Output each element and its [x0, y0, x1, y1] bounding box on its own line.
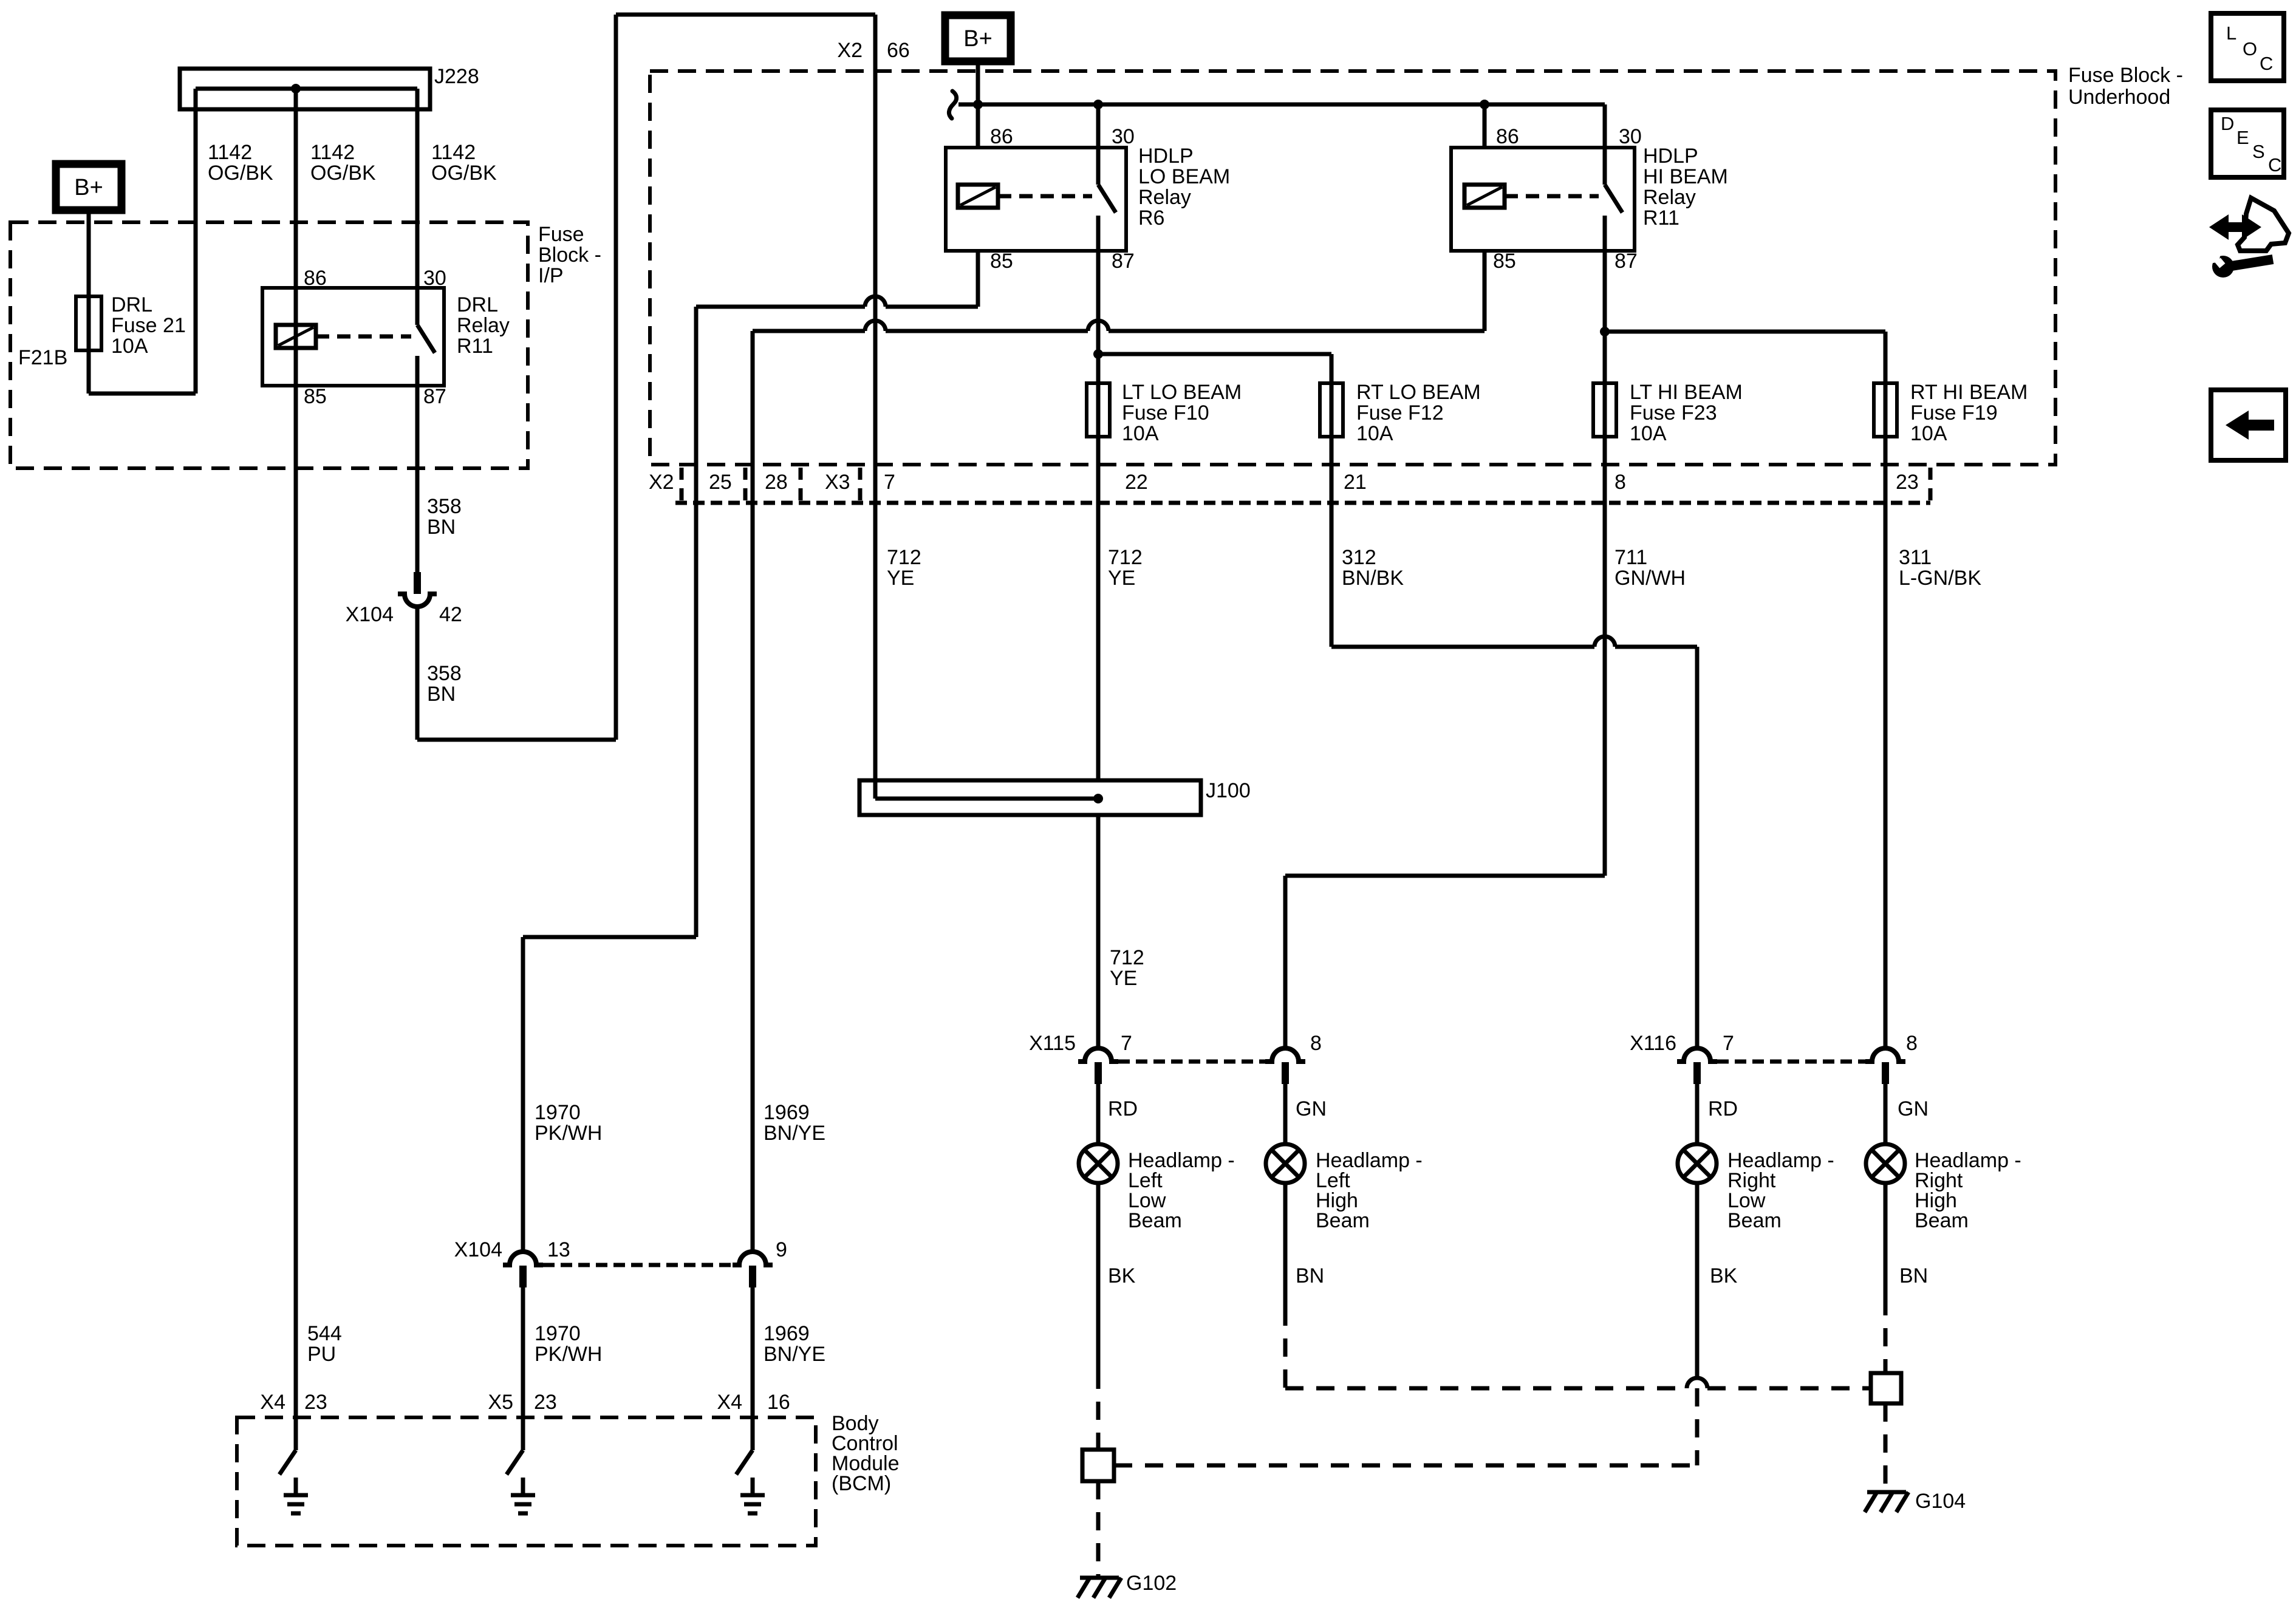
svg-text:1969: 1969 — [764, 1101, 810, 1124]
svg-text:22: 22 — [1125, 471, 1148, 494]
svg-text:544: 544 — [307, 1322, 342, 1345]
svg-text:30: 30 — [1112, 125, 1135, 148]
svg-text:YE: YE — [887, 567, 914, 590]
svg-text:1970: 1970 — [535, 1101, 581, 1124]
svg-text:86: 86 — [1496, 125, 1519, 148]
svg-text:G102: G102 — [1126, 1572, 1177, 1595]
svg-text:I/P: I/P — [538, 264, 564, 287]
svg-text:10A: 10A — [1630, 422, 1667, 445]
svg-text:1142: 1142 — [208, 141, 252, 164]
svg-text:Fuse F19: Fuse F19 — [1910, 401, 1998, 424]
svg-text:712: 712 — [1110, 946, 1144, 969]
svg-text:Beam: Beam — [1128, 1209, 1182, 1232]
svg-text:B+: B+ — [963, 26, 993, 52]
svg-text:OG/BK: OG/BK — [431, 162, 497, 185]
svg-text:R11: R11 — [1643, 206, 1679, 230]
svg-text:10A: 10A — [1122, 422, 1159, 445]
svg-text:L: L — [2226, 22, 2236, 44]
svg-text:28: 28 — [765, 471, 788, 494]
svg-text:X2: X2 — [649, 471, 674, 494]
svg-text:LT LO BEAM: LT LO BEAM — [1122, 381, 1242, 404]
svg-text:L-GN/BK: L-GN/BK — [1899, 567, 1981, 590]
svg-text:LT HI BEAM: LT HI BEAM — [1630, 381, 1743, 404]
svg-text:87: 87 — [423, 385, 446, 408]
svg-text:OG/BK: OG/BK — [208, 162, 273, 185]
svg-text:C: C — [2268, 154, 2281, 176]
svg-text:PK/WH: PK/WH — [535, 1122, 602, 1145]
svg-text:10A: 10A — [1910, 422, 1947, 445]
svg-text:Block -: Block - — [538, 244, 601, 267]
svg-text:Underhood: Underhood — [2068, 86, 2170, 109]
svg-text:GN/WH: GN/WH — [1614, 567, 1686, 590]
svg-text:G104: G104 — [1915, 1490, 1966, 1513]
svg-text:358: 358 — [427, 495, 462, 518]
svg-text:21: 21 — [1344, 471, 1367, 494]
svg-text:BK: BK — [1108, 1264, 1136, 1287]
svg-text:HI BEAM: HI BEAM — [1643, 165, 1728, 188]
svg-text:Beam: Beam — [1915, 1209, 1969, 1232]
svg-text:BN/BK: BN/BK — [1342, 567, 1404, 590]
svg-text:BN/YE: BN/YE — [764, 1343, 825, 1366]
svg-text:OG/BK: OG/BK — [310, 162, 376, 185]
svg-text:O: O — [2243, 38, 2257, 60]
svg-text:Fuse F12: Fuse F12 — [1356, 401, 1444, 424]
svg-text:8: 8 — [1310, 1032, 1322, 1055]
svg-text:YE: YE — [1108, 567, 1135, 590]
svg-text:X2: X2 — [837, 39, 863, 62]
svg-text:85: 85 — [990, 250, 1013, 273]
svg-text:GN: GN — [1898, 1097, 1929, 1120]
svg-text:86: 86 — [304, 267, 327, 290]
svg-text:10A: 10A — [111, 335, 148, 358]
svg-text:1142: 1142 — [431, 141, 476, 164]
svg-text:X104: X104 — [346, 603, 394, 626]
svg-text:86: 86 — [990, 125, 1013, 148]
svg-text:7: 7 — [1723, 1032, 1734, 1055]
svg-text:BN: BN — [427, 516, 456, 539]
svg-text:87: 87 — [1614, 250, 1638, 273]
svg-text:85: 85 — [304, 385, 327, 408]
svg-text:DRL: DRL — [111, 293, 152, 316]
svg-text:Relay: Relay — [1643, 186, 1696, 209]
svg-text:358: 358 — [427, 662, 462, 685]
svg-text:(BCM): (BCM) — [832, 1472, 891, 1495]
svg-text:42: 42 — [439, 603, 462, 626]
svg-text:RD: RD — [1108, 1097, 1138, 1120]
svg-text:Fuse Block -: Fuse Block - — [2068, 64, 2183, 87]
svg-text:HDLP: HDLP — [1138, 145, 1194, 168]
svg-text:711: 711 — [1614, 546, 1647, 569]
svg-text:X116: X116 — [1630, 1032, 1676, 1055]
svg-text:7: 7 — [1121, 1032, 1132, 1055]
svg-text:712: 712 — [1108, 546, 1143, 569]
svg-text:13: 13 — [547, 1238, 570, 1261]
svg-text:GN: GN — [1296, 1097, 1327, 1120]
svg-text:BN/YE: BN/YE — [764, 1122, 825, 1145]
svg-text:J100: J100 — [1206, 779, 1251, 802]
svg-text:LO BEAM: LO BEAM — [1138, 165, 1230, 188]
svg-text:25: 25 — [709, 471, 732, 494]
svg-text:BN: BN — [427, 683, 456, 706]
svg-text:D: D — [2221, 113, 2234, 134]
svg-text:Beam: Beam — [1727, 1209, 1782, 1232]
svg-text:8: 8 — [1614, 471, 1626, 494]
svg-text:X5: X5 — [488, 1391, 513, 1414]
svg-text:Fuse: Fuse — [538, 223, 584, 246]
svg-text:66: 66 — [887, 39, 910, 62]
svg-text:23: 23 — [1896, 471, 1919, 494]
svg-text:RT LO BEAM: RT LO BEAM — [1356, 381, 1481, 404]
svg-text:Fuse 21: Fuse 21 — [111, 314, 186, 337]
svg-text:X104: X104 — [454, 1238, 502, 1261]
svg-text:J228: J228 — [434, 65, 479, 88]
svg-text:23: 23 — [534, 1391, 557, 1414]
svg-text:712: 712 — [887, 546, 921, 569]
svg-text:16: 16 — [767, 1391, 790, 1414]
svg-text:B+: B+ — [74, 175, 103, 200]
svg-text:RT HI BEAM: RT HI BEAM — [1910, 381, 2028, 404]
svg-text:311: 311 — [1899, 546, 1932, 569]
svg-text:1969: 1969 — [764, 1322, 810, 1345]
svg-text:HDLP: HDLP — [1643, 145, 1698, 168]
svg-text:1142: 1142 — [310, 141, 355, 164]
svg-text:BN: BN — [1899, 1264, 1928, 1287]
svg-text:S: S — [2252, 141, 2265, 162]
svg-text:R6: R6 — [1138, 206, 1164, 230]
svg-text:F21B: F21B — [18, 346, 67, 369]
svg-text:312: 312 — [1342, 546, 1376, 569]
svg-text:C: C — [2260, 53, 2273, 74]
svg-text:Relay: Relay — [457, 314, 510, 337]
svg-text:Fuse F10: Fuse F10 — [1122, 401, 1209, 424]
svg-text:X4: X4 — [717, 1391, 742, 1414]
svg-text:Fuse F23: Fuse F23 — [1630, 401, 1717, 424]
svg-text:30: 30 — [1619, 125, 1642, 148]
svg-text:RD: RD — [1708, 1097, 1738, 1120]
svg-text:X115: X115 — [1029, 1032, 1076, 1055]
svg-text:BK: BK — [1710, 1264, 1738, 1287]
svg-text:E: E — [2236, 127, 2249, 148]
svg-text:X4: X4 — [260, 1391, 285, 1414]
svg-text:7: 7 — [884, 471, 895, 494]
svg-text:8: 8 — [1906, 1032, 1918, 1055]
svg-text:R11: R11 — [457, 335, 493, 358]
svg-text:10A: 10A — [1356, 422, 1393, 445]
svg-text:Relay: Relay — [1138, 186, 1191, 209]
svg-text:X3: X3 — [825, 471, 850, 494]
svg-text:87: 87 — [1112, 250, 1135, 273]
svg-text:PU: PU — [307, 1343, 336, 1366]
svg-text:1970: 1970 — [535, 1322, 581, 1345]
svg-text:Beam: Beam — [1316, 1209, 1370, 1232]
svg-text:BN: BN — [1296, 1264, 1324, 1287]
svg-text:23: 23 — [304, 1391, 327, 1414]
svg-text:DRL: DRL — [457, 293, 498, 316]
svg-text:85: 85 — [1493, 250, 1516, 273]
svg-text:30: 30 — [423, 267, 446, 290]
svg-text:9: 9 — [776, 1238, 787, 1261]
svg-text:PK/WH: PK/WH — [535, 1343, 602, 1366]
svg-text:YE: YE — [1110, 967, 1137, 990]
